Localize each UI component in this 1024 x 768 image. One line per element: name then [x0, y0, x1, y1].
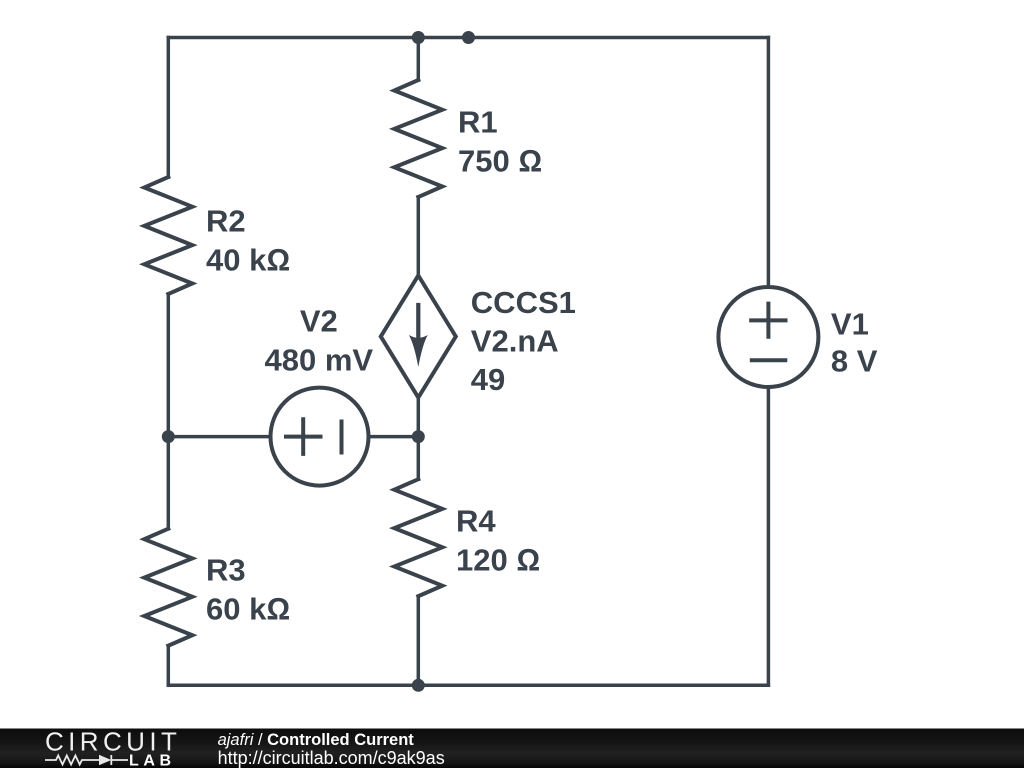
svg-text:R3: R3 — [206, 553, 246, 588]
svg-text:CCCS1: CCCS1 — [471, 285, 576, 320]
wire CCCS1 bottom lead — [417, 398, 421, 437]
svg-text:LAB: LAB — [129, 752, 176, 768]
resistor R2 body — [144, 177, 192, 294]
V2 minus sign (rotated bar) — [340, 422, 344, 453]
wire middle horizontal right (V2 to node) — [369, 435, 419, 439]
voltage source V1 circle — [718, 287, 818, 387]
node junction dot left mid — [162, 430, 175, 443]
wire right rail lower (V1 to bottom) — [767, 387, 771, 685]
node junction dot top second — [462, 31, 475, 44]
node junction dot mid (V2/CCCS1/R4) — [412, 430, 425, 443]
svg-text:8 V: 8 V — [831, 344, 878, 379]
CircuitLab logo resistor-diode squiggle — [45, 755, 128, 765]
CCCS1 arrow shaft — [416, 305, 420, 339]
svg-text:http://circuitlab.com/c9ak9as: http://circuitlab.com/c9ak9as — [218, 748, 445, 768]
svg-text:480 mV: 480 mV — [265, 342, 374, 377]
node junction dot bottom (R4) — [412, 679, 425, 692]
resistor R3 body — [144, 529, 192, 646]
svg-text:R1: R1 — [458, 105, 498, 140]
svg-text:V1: V1 — [831, 307, 869, 342]
svg-text:ajafri / Controlled Current: ajafri / Controlled Current — [218, 731, 415, 749]
wire R3 bottom lead — [167, 646, 171, 686]
V1 minus sign — [752, 358, 786, 362]
wire middle horizontal left (node to V2) — [168, 435, 270, 439]
svg-text:40 kΩ: 40 kΩ — [206, 243, 290, 278]
wire top rail — [168, 36, 768, 40]
wire R2 bottom lead to mid node — [167, 294, 171, 437]
voltage source V2 circle — [271, 388, 369, 486]
V2 plus sign — [286, 419, 321, 454]
svg-text:750 Ω: 750 Ω — [458, 144, 542, 179]
resistor R1 body — [394, 80, 442, 197]
wire R1 top lead — [417, 38, 421, 81]
svg-text:V2: V2 — [300, 304, 338, 339]
svg-text:49: 49 — [471, 362, 505, 397]
svg-text:120 Ω: 120 Ω — [456, 543, 540, 578]
wire bottom rail — [168, 684, 768, 688]
wire right rail upper (top to V1) — [767, 38, 771, 288]
svg-text:R4: R4 — [456, 504, 496, 539]
current source CCCS1 diamond — [381, 276, 456, 398]
svg-text:60 kΩ: 60 kΩ — [206, 592, 290, 627]
node junction dot top (R1 junction) — [412, 31, 425, 44]
wire R1 bottom lead to CCCS1 — [417, 197, 421, 276]
svg-text:R2: R2 — [206, 204, 246, 239]
CCCS1 arrow head — [409, 335, 428, 367]
resistor R4 body — [394, 479, 442, 596]
wire R4 bottom lead — [417, 596, 421, 685]
wire R4 top lead — [417, 437, 421, 480]
wire left rail upper (top to R2) — [167, 38, 171, 178]
svg-text:V2.nA: V2.nA — [471, 324, 559, 359]
V1 plus sign — [751, 304, 785, 337]
wire R3 top lead from mid node — [167, 437, 171, 529]
